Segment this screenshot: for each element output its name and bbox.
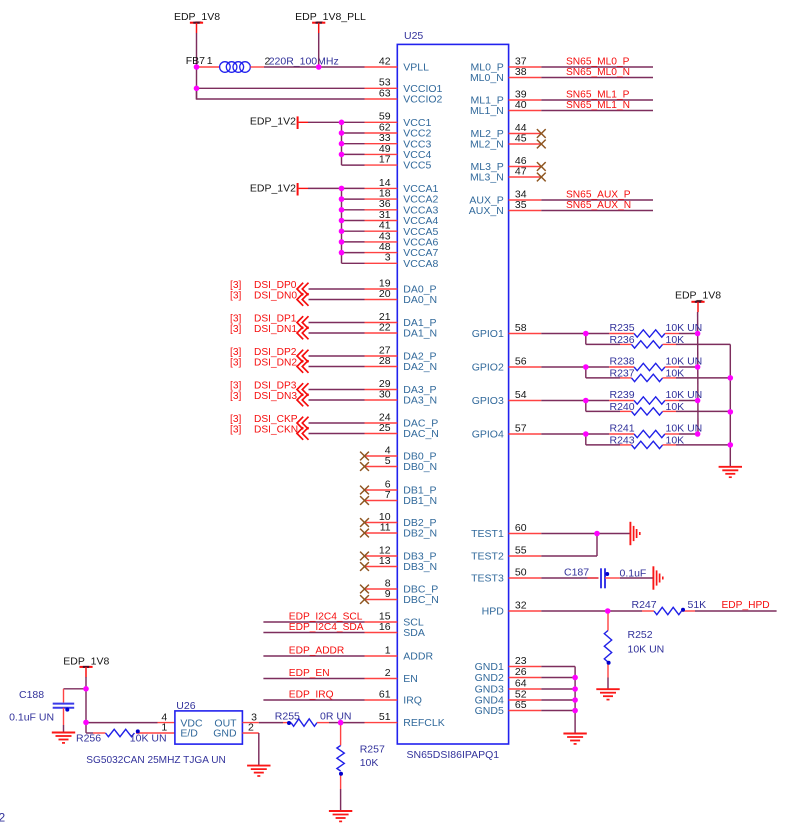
- wire GPIO4 to junction: [541, 433, 586, 435]
- svg-text:1: 1: [161, 722, 167, 734]
- svg-text:25: 25: [379, 422, 391, 434]
- ground (GND rail): [563, 734, 586, 744]
- junction node: [339, 141, 345, 147]
- pin 1 ADDR: [365, 644, 434, 662]
- wire EDP_1V8 to VDC: [86, 722, 175, 724]
- net SN65_ML1_P: [541, 89, 653, 100]
- svg-text:GND: GND: [213, 728, 237, 740]
- junction node: [572, 708, 578, 714]
- pin 35 AUX_N: [469, 199, 542, 217]
- value SN65DSI86IPAPQ1: [407, 749, 500, 761]
- pin 16 SDA: [365, 621, 425, 639]
- svg-text:AUX_N: AUX_N: [469, 205, 504, 217]
- svg-text:GND5: GND5: [475, 705, 504, 717]
- svg-text:2: 2: [248, 722, 254, 734]
- wire GND1 to rail: [541, 667, 575, 734]
- pin 53 VCCIO1: [365, 77, 443, 95]
- component dot: [136, 729, 140, 733]
- wire rail to pin: [342, 230, 365, 232]
- junction node: [83, 720, 89, 726]
- svg-text:47: 47: [515, 165, 527, 177]
- svg-text:61: 61: [379, 688, 391, 700]
- U26 pin numbers: [161, 712, 257, 734]
- wire GPIO1 to junction: [541, 333, 586, 335]
- svg-text:R243: R243: [610, 434, 635, 446]
- pin 36 VCCA3: [365, 198, 439, 216]
- pin 8 DBC_P: [365, 577, 439, 595]
- svg-text:GPIO4: GPIO4: [472, 429, 504, 441]
- junction node: [583, 398, 589, 404]
- ground (TEST3) sideways: [653, 566, 662, 589]
- svg-text:9: 9: [385, 588, 391, 600]
- resistor R241 10K UN pull-up: [586, 423, 702, 438]
- wire EDP_1V8 vertical: [196, 33, 198, 99]
- pin 41 VCCA5: [365, 220, 439, 238]
- svg-text:VCCA8: VCCA8: [403, 258, 438, 270]
- svg-text:10K UN: 10K UN: [628, 644, 665, 656]
- power symbol EDP_1V2: [250, 182, 308, 195]
- net SN65_ML0_N: [541, 67, 653, 78]
- svg-text:[3]: [3]: [230, 290, 241, 301]
- svg-text:TEST3: TEST3: [471, 573, 504, 585]
- svg-text:0R UN: 0R UN: [320, 711, 352, 723]
- oscillator U26 body: [175, 711, 243, 744]
- svg-text:R252: R252: [628, 629, 653, 641]
- no-connect X: [360, 452, 369, 461]
- svg-text:DSI_DP0: DSI_DP0: [254, 280, 297, 291]
- svg-text:R239: R239: [610, 389, 635, 401]
- svg-text:10K: 10K: [666, 334, 685, 346]
- component dot: [287, 721, 291, 725]
- pin 7 DB1_N: [365, 489, 438, 507]
- wire GND to rail: [541, 699, 575, 701]
- svg-text:[3]: [3]: [230, 391, 241, 402]
- svg-text:C188: C188: [19, 689, 44, 701]
- no-connect X: [360, 518, 369, 527]
- net DSI_DP1 off-page connector: [230, 313, 365, 329]
- svg-text:DSI_DN0: DSI_DN0: [254, 290, 297, 301]
- svg-text:EDP_1V8_PLL: EDP_1V8_PLL: [295, 11, 366, 23]
- refdes U25: [404, 30, 423, 42]
- net DSI_DP0 off-page connector: [230, 280, 365, 296]
- junction node: [728, 442, 734, 448]
- no-connect X: [360, 595, 369, 604]
- svg-text:R235: R235: [610, 322, 635, 334]
- svg-text:22: 22: [379, 321, 391, 333]
- wire GPIO2 to junction: [541, 366, 586, 368]
- svg-text:VCC5: VCC5: [403, 160, 431, 172]
- pin 15 SCL: [365, 610, 424, 628]
- svg-text:58: 58: [515, 322, 527, 334]
- wire EDP_1V8_PLL stem: [318, 33, 320, 67]
- pin 52 GND4: [475, 688, 542, 706]
- pin 42 VPLL: [365, 55, 430, 73]
- svg-text:1: 1: [385, 644, 391, 656]
- resistor R239 10K UN pull-up: [586, 389, 702, 404]
- junction node: [83, 686, 89, 692]
- svg-text:EDP_IRQ: EDP_IRQ: [289, 689, 334, 700]
- pin 14 VCCA1: [365, 177, 439, 195]
- pin 4 DB0_P: [365, 444, 437, 462]
- junction node: [594, 531, 600, 537]
- resistor R252 10K UN: [604, 611, 664, 689]
- pin 65 GND5: [475, 699, 542, 717]
- pin 46 ML3_P: [471, 155, 542, 173]
- net DSI_DN2 off-page connector: [230, 357, 365, 373]
- resistor R237 10K pull-down: [586, 367, 731, 382]
- junction node: [572, 686, 578, 692]
- svg-text:57: 57: [515, 422, 527, 434]
- pin 25 DAC_N: [365, 422, 439, 440]
- svg-text:[3]: [3]: [230, 424, 241, 435]
- wire rail to pin: [342, 220, 365, 222]
- component dot: [681, 608, 685, 612]
- svg-text:SG5032CAN 25MHZ TJGA UN: SG5032CAN 25MHZ TJGA UN: [86, 755, 226, 766]
- pin 29 DA3_P: [365, 378, 437, 396]
- pin 61 IRQ: [365, 688, 422, 706]
- ground (R257): [329, 811, 352, 821]
- net DSI_DN3 off-page connector: [230, 391, 365, 407]
- svg-text:SN65DSI86IPAPQ1: SN65DSI86IPAPQ1: [407, 749, 500, 761]
- wire EDP_1V8 stem: [85, 677, 87, 733]
- svg-text:50: 50: [515, 566, 527, 578]
- wire GND rail (GPIO): [729, 344, 731, 466]
- resistor R236 10K pull-down: [586, 334, 731, 349]
- refdes U26: [176, 700, 195, 712]
- resistor R255 0R UN: [275, 711, 352, 727]
- svg-text:16: 16: [379, 621, 391, 633]
- no-connect X: [360, 585, 369, 594]
- wire GND to rail: [541, 710, 575, 712]
- pin 17 VCC5: [365, 154, 432, 172]
- svg-text:DSI_DN2: DSI_DN2: [254, 357, 297, 368]
- pin 11 DB2_N: [365, 521, 438, 539]
- resistor R247 51K: [608, 599, 706, 615]
- svg-text:3: 3: [385, 252, 391, 264]
- ground (TEST1) sideways: [630, 522, 639, 545]
- svg-text:EDP_1V2: EDP_1V2: [250, 182, 296, 194]
- svg-text:R238: R238: [610, 356, 635, 368]
- resistor R257 10K: [337, 723, 385, 811]
- junction node: [572, 697, 578, 703]
- page border index 2: [0, 811, 6, 825]
- net DSI_DN1 off-page connector: [230, 324, 365, 340]
- junction node: [339, 250, 345, 256]
- svg-text:U26: U26: [176, 700, 195, 712]
- value SG5032CAN 25MHZ TJGA UN: [86, 755, 226, 766]
- svg-text:GPIO2: GPIO2: [472, 362, 504, 374]
- wire C187 to ground: [620, 577, 654, 579]
- pin 33 VCC3: [365, 132, 432, 150]
- svg-text:35: 35: [515, 199, 527, 211]
- junction node: [695, 398, 701, 404]
- pin 48 VCCA7: [365, 241, 439, 259]
- component dot: [605, 572, 609, 576]
- wire to VCCIO1: [197, 87, 365, 89]
- svg-text:DA2_N: DA2_N: [403, 361, 437, 373]
- net DSI_CKP off-page connector: [230, 414, 365, 430]
- net EDP_ADDR: [263, 645, 364, 656]
- svg-text:DB1_N: DB1_N: [403, 495, 437, 507]
- svg-text:0.1uF UN: 0.1uF UN: [9, 711, 54, 723]
- net DSI_DN0 off-page connector: [230, 290, 365, 306]
- pin 62 VCC2: [365, 121, 432, 139]
- no-connect X: [537, 162, 546, 171]
- power symbol EDP_1V8 (bottom): [63, 656, 109, 678]
- svg-text:38: 38: [515, 66, 527, 78]
- svg-text:SN65_ML0_N: SN65_ML0_N: [566, 67, 630, 78]
- pin 13 DB3_N: [365, 555, 438, 573]
- net SN65_AUX_P: [541, 189, 653, 200]
- svg-text:51: 51: [379, 711, 391, 723]
- svg-text:2: 2: [0, 811, 6, 825]
- pin 2 EN: [365, 667, 418, 685]
- net DSI_DP2 off-page connector: [230, 347, 365, 363]
- svg-text:VPLL: VPLL: [403, 62, 429, 74]
- svg-text:SDA: SDA: [403, 627, 425, 639]
- no-connect X: [360, 486, 369, 495]
- pin 43 VCCA6: [365, 230, 439, 248]
- pin 40 ML1_N: [470, 99, 541, 117]
- wire HPD: [541, 610, 607, 612]
- pin 12 DB3_P: [365, 544, 437, 562]
- pin 30 DA3_N: [365, 388, 438, 406]
- svg-text:REFCLK: REFCLK: [403, 717, 444, 729]
- wire to C188: [64, 688, 87, 690]
- svg-text:40: 40: [515, 99, 527, 111]
- svg-text:DSI_DP2: DSI_DP2: [254, 347, 297, 358]
- pin 37 ML0_P: [471, 55, 542, 73]
- wire GND to rail: [541, 688, 575, 690]
- svg-text:1: 1: [207, 55, 213, 67]
- svg-text:TEST2: TEST2: [471, 551, 504, 563]
- svg-text:EDP_I2C4_SDA: EDP_I2C4_SDA: [289, 622, 364, 633]
- wire rail to pin: [342, 252, 365, 254]
- svg-text:[3]: [3]: [230, 357, 241, 368]
- svg-text:5: 5: [385, 455, 391, 467]
- wire rail to pin: [342, 164, 365, 166]
- no-connect X: [537, 173, 546, 182]
- pin 27 DA2_P: [365, 344, 437, 362]
- svg-text:55: 55: [515, 544, 527, 556]
- pin 50 TEST3: [471, 566, 541, 584]
- pin 34 AUX_P: [469, 188, 541, 206]
- component dot: [607, 661, 611, 665]
- wire rail to pin: [342, 121, 365, 123]
- pin 3 VCCA8: [365, 252, 439, 270]
- wire R255 to REFCLK: [341, 722, 365, 724]
- svg-text:DA0_N: DA0_N: [403, 294, 437, 306]
- svg-text:ML0_N: ML0_N: [470, 72, 504, 84]
- wire rail to pin: [342, 262, 365, 264]
- pin 28 DA2_N: [365, 355, 438, 373]
- junction node: [338, 720, 344, 726]
- svg-text:R255: R255: [275, 711, 300, 723]
- svg-text:13: 13: [379, 555, 391, 567]
- net SN65_AUX_N: [541, 200, 653, 211]
- power symbol EDP_1V8_PLL: [295, 11, 366, 33]
- power symbol EDP_1V2: [250, 116, 308, 129]
- pin 22 DA1_N: [365, 321, 438, 339]
- IC U25 body: [397, 44, 508, 744]
- svg-text:DSI_DP1: DSI_DP1: [254, 313, 297, 324]
- net EDP_HPD: [695, 600, 777, 611]
- ground (C188): [52, 733, 75, 743]
- pin 49 VCC4: [365, 143, 432, 161]
- net SN65_ML1_N: [541, 100, 653, 111]
- junction node: [605, 608, 611, 614]
- svg-text:10K: 10K: [666, 434, 685, 446]
- net EDP_IRQ: [263, 689, 364, 700]
- wire EDP_1V8 GPIO rail: [697, 312, 699, 434]
- ground (R252): [596, 689, 619, 699]
- pin 58 GPIO1: [472, 322, 542, 340]
- net DSI_CKN off-page connector: [230, 424, 365, 440]
- svg-text:26: 26: [515, 666, 527, 678]
- svg-text:10K: 10K: [666, 401, 685, 413]
- no-connect X: [360, 529, 369, 538]
- svg-text:DA3_N: DA3_N: [403, 395, 437, 407]
- junction node: [339, 120, 345, 126]
- pin 38 ML0_N: [470, 66, 541, 84]
- svg-text:GND2: GND2: [475, 672, 504, 684]
- wire TEST2: [541, 534, 597, 557]
- svg-text:ML2_N: ML2_N: [470, 139, 504, 151]
- svg-text:SN65_ML1_N: SN65_ML1_N: [566, 100, 630, 111]
- pin 63 VCCIO2: [365, 87, 443, 105]
- pin 5 DB0_N: [365, 455, 438, 473]
- svg-text:EDP_1V8: EDP_1V8: [63, 656, 109, 668]
- svg-text:IRQ: IRQ: [403, 695, 422, 707]
- svg-text:DBC_N: DBC_N: [403, 594, 439, 606]
- wire TEST3 to C187: [541, 577, 598, 579]
- svg-text:E/D: E/D: [180, 728, 198, 740]
- junction node: [695, 331, 701, 337]
- junction node: [194, 64, 200, 70]
- svg-text:ADDR: ADDR: [403, 651, 433, 663]
- svg-text:C187: C187: [564, 567, 589, 579]
- resistor R243 10K pull-down: [586, 434, 731, 449]
- junction node: [572, 675, 578, 681]
- svg-text:EDP_I2C4_SCL: EDP_I2C4_SCL: [289, 611, 363, 622]
- no-connect X: [360, 562, 369, 571]
- resistor R238 10K UN pull-up: [586, 356, 702, 371]
- ground (U26): [247, 766, 270, 776]
- resistor R256 10K UN: [76, 729, 175, 744]
- wire rail to pin: [342, 209, 365, 211]
- capacitor C187 0.1uF: [564, 567, 646, 589]
- pin 47 ML3_N: [470, 165, 541, 183]
- no-connect X: [360, 552, 369, 561]
- svg-text:10K: 10K: [360, 757, 379, 769]
- ground (GPIO rail): [719, 467, 742, 477]
- svg-text:51K: 51K: [688, 599, 707, 611]
- svg-text:54: 54: [515, 389, 527, 401]
- pin 60 TEST1: [471, 522, 541, 540]
- pin 26 GND2: [475, 666, 542, 684]
- pin 39 ML1_P: [471, 88, 542, 106]
- svg-text:DB2_N: DB2_N: [403, 528, 437, 540]
- wire rail to pin: [342, 143, 365, 145]
- svg-text:R257: R257: [360, 744, 385, 756]
- svg-text:[3]: [3]: [230, 347, 241, 358]
- resistor R235 10K UN pull-up: [586, 322, 702, 337]
- svg-text:GPIO3: GPIO3: [472, 395, 504, 407]
- net SN65_ML0_P: [541, 56, 653, 67]
- svg-text:DB0_N: DB0_N: [403, 461, 437, 473]
- svg-text:TEST1: TEST1: [471, 528, 504, 540]
- svg-text:DA1_N: DA1_N: [403, 328, 437, 340]
- pin 24 DAC_P: [365, 411, 439, 429]
- svg-text:R241: R241: [610, 423, 635, 435]
- svg-text:EDP_1V8: EDP_1V8: [174, 11, 220, 23]
- svg-text:SN65_AUX_P: SN65_AUX_P: [566, 189, 631, 200]
- svg-text:[3]: [3]: [230, 324, 241, 335]
- svg-text:DSI_CKP: DSI_CKP: [254, 414, 298, 425]
- wire FB7 to VPLL: [264, 66, 365, 68]
- no-connect X: [537, 129, 546, 138]
- power symbol EDP_1V8 (top left): [174, 11, 220, 33]
- svg-text:DSI_DN3: DSI_DN3: [254, 391, 297, 402]
- junction node: [339, 239, 345, 245]
- pin 23 GND1: [475, 655, 542, 673]
- junction node: [695, 364, 701, 370]
- component dot: [339, 772, 343, 776]
- pin 6 DB1_P: [365, 478, 437, 496]
- svg-text:[3]: [3]: [230, 380, 241, 391]
- wire rail to pin: [342, 187, 365, 189]
- svg-text:R240: R240: [610, 401, 635, 413]
- pin 59 VCC1: [365, 111, 432, 129]
- wire rail to pin: [342, 198, 365, 200]
- U26 pin names: [180, 717, 237, 739]
- pin 32 HPD: [482, 599, 542, 617]
- pin 56 GPIO2: [472, 355, 542, 373]
- wire to VCCIO2: [197, 88, 365, 99]
- net EDP_I2C4_SCL: [263, 611, 364, 622]
- svg-text:65: 65: [515, 699, 527, 711]
- wire TEST1: [541, 533, 630, 535]
- svg-text:11: 11: [380, 521, 391, 533]
- wire GND to rail: [541, 677, 575, 679]
- net EDP_I2C4_SDA: [263, 622, 364, 633]
- pin 64 GND3: [475, 677, 542, 695]
- wire OUT to R255: [242, 722, 283, 724]
- no-connect X: [537, 140, 546, 149]
- svg-text:ML1_N: ML1_N: [470, 105, 504, 117]
- svg-text:45: 45: [515, 132, 527, 144]
- svg-text:DSI_DN1: DSI_DN1: [254, 324, 297, 335]
- pin 54 GPIO3: [472, 389, 542, 407]
- svg-text:220R_100MHz: 220R_100MHz: [269, 56, 339, 68]
- U26 GND pin wire: [242, 733, 258, 765]
- junction node: [583, 431, 589, 437]
- wire EDP_1V2 rail: [341, 122, 343, 165]
- svg-text:[3]: [3]: [230, 414, 241, 425]
- svg-text:32: 32: [515, 599, 527, 611]
- svg-text:SN65_ML1_P: SN65_ML1_P: [566, 89, 630, 100]
- junction node: [695, 431, 701, 437]
- svg-text:7: 7: [385, 489, 391, 501]
- capacitor C188 0.1uF UN: [9, 689, 74, 732]
- junction node: [194, 86, 200, 92]
- svg-text:R236: R236: [610, 334, 635, 346]
- pin 9 DBC_N: [365, 588, 439, 606]
- net EDP_EN: [263, 668, 364, 679]
- no-connect X: [360, 462, 369, 471]
- svg-text:30: 30: [379, 388, 391, 400]
- svg-text:EDP_1V8: EDP_1V8: [675, 290, 721, 302]
